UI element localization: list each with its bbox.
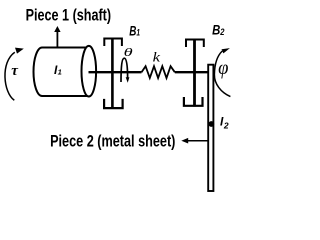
phi rotation arc	[214, 48, 230, 97]
metal sheet bar (Piece 2)	[208, 65, 213, 191]
theta rotation arc	[121, 58, 129, 83]
node I2 (dot on sheet)	[208, 121, 214, 127]
bearing B1	[104, 38, 123, 109]
shaft line	[89, 71, 209, 73]
svg-text:φ: φ	[218, 58, 229, 80]
svg-text:Piece 1 (shaft): Piece 1 (shaft)	[26, 7, 112, 25]
svg-text:k: k	[153, 49, 162, 65]
spring k	[142, 66, 175, 78]
svg-text:θ: θ	[124, 46, 134, 59]
cylinder I1 (shaft body)	[34, 46, 97, 97]
torque arrow tau	[5, 48, 24, 101]
arrow to Piece 1 label	[54, 26, 60, 48]
bearing B2	[184, 39, 204, 107]
svg-text:Piece 2 (metal sheet): Piece 2 (metal sheet)	[50, 131, 175, 150]
arrow to Piece 2 label	[181, 138, 207, 144]
